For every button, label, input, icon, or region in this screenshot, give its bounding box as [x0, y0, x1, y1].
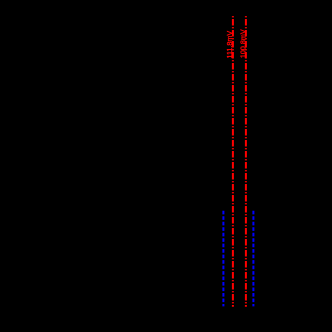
- svg-text:100.8mV: 100.8mV: [238, 29, 247, 58]
- svg-text:111.8mV: 111.8mV: [225, 31, 234, 59]
